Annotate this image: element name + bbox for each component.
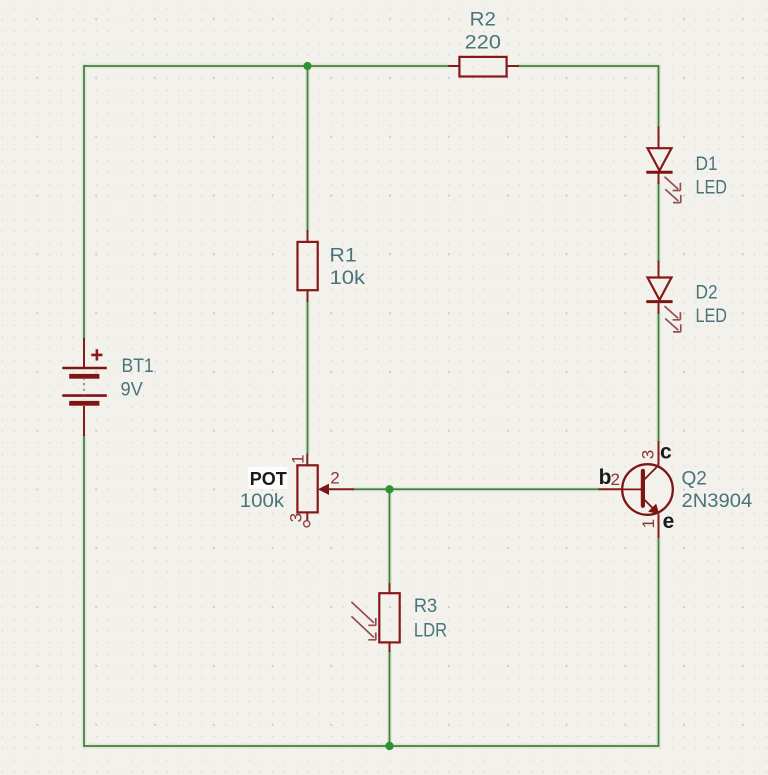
- svg-text:1: 1: [288, 454, 307, 463]
- svg-text:9V: 9V: [121, 380, 144, 401]
- svg-text:R3: R3: [414, 596, 437, 617]
- svg-text:c: c: [660, 441, 672, 464]
- svg-text:10k: 10k: [330, 268, 366, 289]
- svg-text:LED: LED: [696, 178, 728, 199]
- svg-text:LED: LED: [696, 306, 728, 327]
- svg-text:2: 2: [330, 468, 339, 487]
- svg-text:D1: D1: [696, 154, 718, 175]
- svg-text:Q2: Q2: [682, 468, 707, 489]
- svg-text:2N3904: 2N3904: [682, 491, 753, 512]
- svg-text:POT: POT: [250, 469, 287, 489]
- svg-text:b: b: [599, 466, 612, 489]
- svg-text:R1: R1: [330, 245, 357, 266]
- svg-text:220: 220: [465, 32, 501, 53]
- svg-text:D2: D2: [696, 283, 718, 304]
- svg-text:100k: 100k: [240, 491, 285, 512]
- svg-text:R2: R2: [470, 9, 496, 30]
- svg-text:3: 3: [638, 450, 657, 459]
- svg-text:1: 1: [639, 519, 658, 528]
- svg-text:3: 3: [286, 513, 305, 522]
- svg-text:e: e: [663, 510, 675, 533]
- svg-text:2: 2: [611, 470, 620, 489]
- svg-text:BT1: BT1: [122, 356, 154, 377]
- svg-text:LDR: LDR: [414, 620, 447, 641]
